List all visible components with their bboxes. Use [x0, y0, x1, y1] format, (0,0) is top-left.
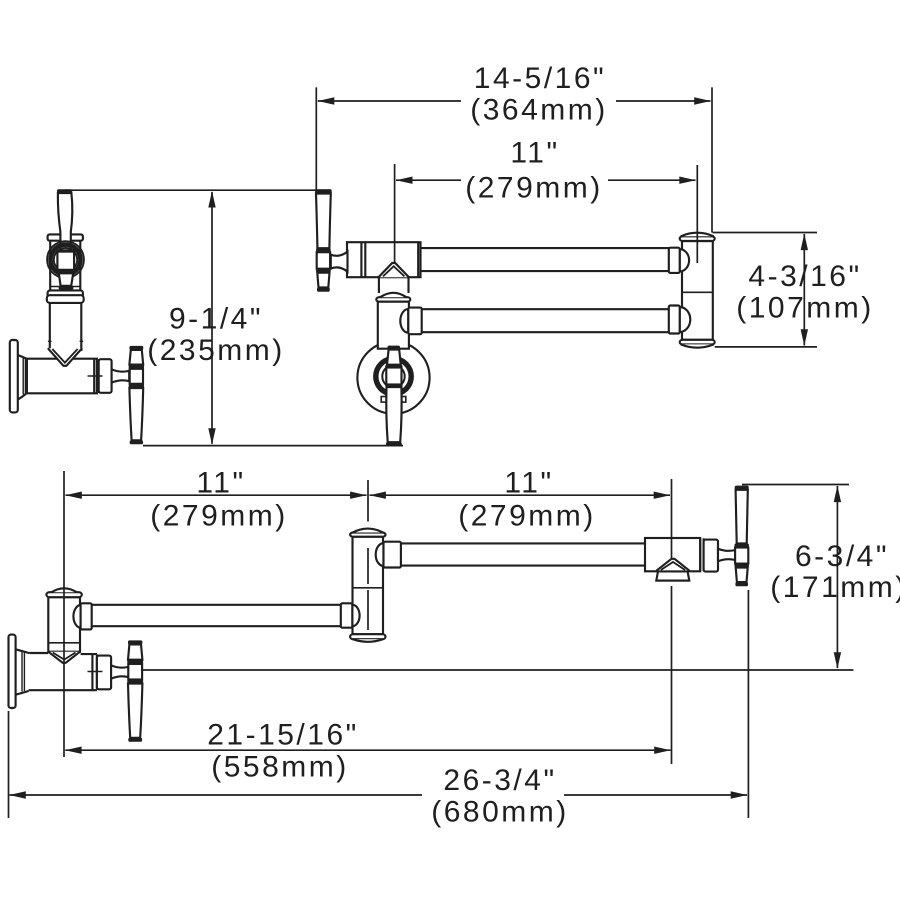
svg-text:(171mm): (171mm)	[770, 571, 900, 604]
extension line left (11 in upper)	[394, 164, 396, 264]
lever hub (face-on)	[385, 365, 402, 387]
spout valve body	[645, 538, 704, 571]
elbow top cap	[680, 233, 715, 241]
svg-text:14-5/16": 14-5/16"	[474, 62, 606, 95]
lower arm socket at elbow	[669, 306, 690, 334]
upper arm tube (folded)	[421, 248, 669, 271]
svg-text:9-1/4": 9-1/4"	[169, 303, 263, 336]
valve body vertical (left assembly)	[48, 301, 83, 351]
wall valve body (horizontal, extended view)	[29, 653, 97, 690]
lower arm socket at spout	[400, 308, 421, 335]
lower arm tube (folded)	[422, 309, 669, 332]
reference line top (6-3/4)	[742, 484, 849, 486]
middle swing joint body	[353, 537, 384, 635]
arm socket at wall joint	[73, 603, 91, 629]
first arm tube (extended)	[92, 605, 341, 626]
dimension 6-3/4 in (171mm)	[770, 486, 900, 669]
dimension 26-3/4 in (680mm)	[9, 764, 747, 829]
escutcheon circle (face-on)	[357, 342, 429, 414]
stem centerline tick (wall valve)	[88, 671, 103, 673]
dimension 9-1/4 in (235mm)	[147, 191, 285, 445]
spout valve bonnet cap	[704, 540, 718, 572]
svg-text:26-3/4": 26-3/4"	[443, 764, 556, 797]
reference line bottom (9-1/4)	[143, 445, 403, 447]
dimension 14-5/16 in (364mm)	[318, 62, 711, 127]
extension line right (11 in upper)	[696, 165, 698, 263]
dimension 11 in upper (279mm)	[396, 137, 696, 205]
handle bracket sides	[50, 241, 80, 291]
bracket bottom caps	[47, 290, 84, 303]
reference line bottom (4-3/16)	[715, 346, 817, 348]
svg-text:(558mm): (558mm)	[211, 751, 349, 784]
lever handle L2 (pointing down)	[129, 346, 144, 444]
T-fitting body (center)	[347, 242, 421, 277]
extension line right (14-5/16)	[711, 87, 713, 232]
T-fitting junction seam	[379, 263, 409, 277]
extension line middle joint	[367, 480, 369, 630]
spout neck below T	[379, 277, 409, 293]
svg-text:(680mm): (680mm)	[431, 796, 569, 829]
svg-text:(279mm): (279mm)	[465, 172, 603, 205]
reference line top (9-1/4)	[65, 189, 331, 191]
svg-text:6-3/4": 6-3/4"	[795, 540, 889, 573]
reference line top (4-3/16)	[713, 232, 818, 234]
svg-text:11": 11"	[504, 466, 553, 499]
middle joint bottom cap	[350, 634, 385, 642]
extension line left (lower dims)	[63, 471, 65, 757]
supply inlet body (horizontal)	[27, 359, 99, 394]
lever handle L1 (pointing up)	[57, 189, 72, 251]
extension line right valve	[671, 479, 673, 764]
spout outlet seam	[656, 559, 689, 571]
svg-text:(364mm): (364mm)	[470, 94, 608, 127]
lever handle L4 (wall valve)	[127, 640, 143, 741]
first arm socket at middle joint	[341, 603, 360, 627]
svg-text:(235mm): (235mm)	[147, 334, 285, 367]
extension line right (26-3/4)	[747, 590, 749, 818]
dimension 21-15/16 in (558mm)	[65, 719, 671, 784]
valve bonnet cap (left assembly)	[99, 359, 112, 393]
wall valve bonnet cap	[97, 656, 111, 690]
extension line left (14-5/16)	[315, 87, 317, 189]
lever lower grip	[59, 273, 74, 289]
svg-text:(279mm): (279mm)	[458, 500, 596, 533]
spout outlet tip	[656, 571, 689, 580]
svg-text:4-3/16": 4-3/16"	[748, 260, 861, 293]
swing joint dome cap (wall)	[46, 588, 81, 597]
extension line left (26-3/4)	[8, 711, 10, 818]
wall flange escutcheon (folded view)	[10, 340, 27, 412]
wall reference line (6-3/4 bottom)	[143, 669, 854, 671]
valve ring (face-on)	[376, 359, 411, 394]
second arm socket at middle joint	[376, 542, 401, 568]
svg-text:11": 11"	[196, 466, 245, 499]
middle joint top cap	[350, 529, 385, 537]
lever short end (face-on, up)	[387, 346, 401, 365]
riser junction seam	[48, 652, 80, 663]
upper arm socket at elbow	[669, 248, 689, 273]
svg-text:(107mm): (107mm)	[736, 292, 874, 325]
handle bracket top band	[48, 234, 83, 240]
wall flange escutcheon (extended view)	[9, 635, 30, 708]
escutcheon mounting ears	[381, 397, 406, 403]
lever handle L6 grip (face-on, down)	[386, 387, 402, 446]
valve stem (wall valve)	[111, 665, 128, 678]
swivel ring (folded joint seen face-on)	[47, 241, 84, 278]
dimension 11 in lower-right (279mm)	[369, 466, 670, 532]
svg-text:(279mm): (279mm)	[150, 500, 288, 533]
swing joint riser (extended view)	[48, 597, 80, 652]
elbow joint body (right end)	[682, 241, 713, 340]
lever hub block	[57, 249, 75, 272]
lever handle L3 (pointing up, center)	[315, 189, 332, 291]
second arm tube (extended)	[401, 543, 645, 565]
valve stem cone (center)	[331, 252, 348, 272]
svg-text:21-15/16": 21-15/16"	[207, 719, 359, 752]
dimension 11 in lower-left (279mm)	[65, 466, 366, 532]
dimension 4-3/16 in (107mm)	[736, 234, 874, 346]
svg-text:11": 11"	[510, 137, 559, 170]
lever handle L5 (spout valve, long end up)	[735, 486, 749, 587]
valve stem (left assembly)	[112, 369, 130, 382]
pipe junction seam (left assembly)	[48, 348, 82, 366]
valve stem (spout valve)	[718, 549, 735, 562]
stem centerline tick (left assembly)	[88, 375, 103, 377]
spout drop cylinder	[378, 302, 409, 349]
elbow bottom cap	[680, 340, 715, 348]
swivel dome cap (center)	[376, 293, 410, 302]
